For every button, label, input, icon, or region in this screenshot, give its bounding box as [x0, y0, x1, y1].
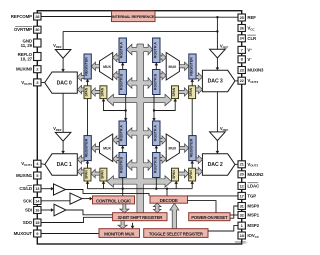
- pin 14 SCK: [34, 198, 41, 205]
- span register SPAN2b: [172, 168, 179, 181]
- arrow decode shift register bidirectional: [153, 203, 161, 213]
- arrow SPAN2a to DAC2: [196, 167, 203, 175]
- svg-text:SPAN: SPAN: [85, 87, 89, 96]
- arrow REG1 to DAC1: [77, 155, 84, 163]
- register RGSTR A2: [153, 121, 160, 146]
- wire load line up to SPAN1a: [87, 183, 89, 189]
- wire VOUT2 pin to DAC2: [235, 163, 238, 165]
- span register SPAN3a: [189, 86, 196, 99]
- svg-text:MSP2: MSP2: [247, 223, 259, 228]
- wire load line up to SPAN2a: [191, 183, 193, 189]
- svg-text:REGISTER: REGISTER: [85, 138, 89, 157]
- register REG3 (DAC3 register): [189, 54, 196, 79]
- pin 5 MUXIN1: [34, 172, 41, 179]
- svg-text:TGP: TGP: [247, 193, 256, 198]
- arrow REG0 to DAC0: [77, 73, 84, 81]
- svg-text:REF: REF: [247, 15, 256, 20]
- pin 13 CS/LD: [34, 185, 41, 192]
- svg-text:RGSTR B: RGSTR B: [120, 73, 124, 90]
- svg-text:SPAN: SPAN: [189, 87, 193, 96]
- arrow RGSTR B1 to mux M1: [113, 155, 119, 163]
- span register SPAN0b: [100, 86, 107, 99]
- wire internal reference to REF pin: [155, 16, 238, 18]
- wire SDI pin to buffer B3: [41, 209, 52, 211]
- wire CS/LD pin to buffer B1: [41, 188, 52, 190]
- svg-text:MUXIN3: MUXIN3: [247, 68, 264, 73]
- wire DAC3 bottom to buffer A2: [216, 92, 218, 132]
- svg-text:SCK: SCK: [23, 199, 33, 204]
- node junction VREF rail right: [216, 30, 218, 32]
- wire VOUT3 pin to DAC3: [235, 80, 238, 82]
- mux M2: [166, 134, 179, 162]
- wire load line up to SPAN1b: [103, 183, 105, 189]
- arrow SPAN1b to SPAN1a: [91, 169, 100, 177]
- wire monitor select to monitor mux: [132, 223, 134, 227]
- arrow SPAN3b to SPAN3a: [179, 88, 189, 96]
- svg-text:MUXIN0: MUXIN0: [16, 67, 33, 72]
- pin 28 REFCOMP: [34, 13, 41, 20]
- svg-text:SPAN: SPAN: [172, 170, 176, 179]
- wire buffer B1 to decode: [66, 190, 150, 196]
- span register SPAN1b: [100, 168, 107, 181]
- wire SPAN0a to REG0: [87, 81, 89, 86]
- svg-text:DECODE: DECODE: [160, 198, 178, 203]
- wire toggle select to MSP2 pin: [208, 226, 238, 231]
- register RGSTR A3: [153, 38, 160, 63]
- vref buffer amp A0: [55, 50, 71, 59]
- svg-text:SPAN: SPAN: [85, 170, 89, 179]
- pin 16 SDI: [34, 207, 41, 214]
- wire RGSTR B0 down to RGSTR A1: [125, 95, 127, 120]
- vref buffer amp A2: [210, 132, 226, 141]
- arrow RGSTR B2 to mux M2: [160, 155, 166, 163]
- pin 23 MUXIN3: [238, 67, 245, 74]
- pin 26 VCC: [238, 25, 245, 32]
- pin 20 MUXIN2: [238, 171, 245, 178]
- span register SPAN3b: [172, 86, 179, 99]
- pin 18 IOVCC: [238, 232, 245, 239]
- wire REFCOMP to internal reference: [41, 16, 112, 18]
- node junction RGSTR B2 load: [155, 188, 157, 190]
- wire VOUT1 pin to DAC1: [41, 163, 45, 166]
- buffer amp B3 SDI: [54, 204, 66, 216]
- svg-text:RGSTR A: RGSTR A: [153, 42, 157, 59]
- svg-text:SPAN: SPAN: [100, 87, 104, 96]
- svg-text:DAC 1: DAC 1: [57, 162, 72, 168]
- svg-text:LDAC: LDAC: [247, 183, 260, 188]
- wire RGSTR B1 down to control logic: [122, 178, 124, 196]
- arrow mux M2 to REG2: [179, 144, 188, 152]
- svg-text:RGSTR A: RGSTR A: [120, 125, 124, 142]
- wire register load line: [88, 188, 193, 190]
- wire buffer A0 to DAC0: [62, 58, 64, 69]
- svg-text:MUXIN2: MUXIN2: [247, 172, 264, 177]
- register RGSTR B3: [153, 70, 160, 95]
- chip package outline: [37, 11, 241, 244]
- wire SPAN2a to REG2: [191, 162, 193, 168]
- wire SPAN3a to REG3: [191, 81, 193, 86]
- arrow RGSTR B0 to mux M0: [113, 71, 119, 79]
- wire VOUT0 pin to DAC0: [41, 81, 45, 83]
- svg-text:MSP0: MSP0: [247, 204, 259, 209]
- DAC 1 block: [45, 154, 77, 175]
- wire load line up to SPAN2b: [175, 183, 177, 189]
- register REG2 (DAC2 register): [189, 136, 196, 161]
- svg-text:DAC 0: DAC 0: [57, 80, 72, 86]
- wire SPAN3a down to REG2: [191, 99, 193, 136]
- svg-text:RGSTR A: RGSTR A: [153, 125, 157, 142]
- arrow REG2 to DAC2: [196, 155, 202, 163]
- svg-text:SPAN: SPAN: [172, 87, 176, 96]
- svg-text:DAC 3: DAC 3: [208, 79, 223, 85]
- pin 15 SDO: [34, 219, 41, 226]
- svg-text:MUXOUT: MUXOUT: [14, 231, 33, 236]
- svg-text:CONTROL LOGIC: CONTROL LOGIC: [96, 198, 132, 203]
- wire buffer A3 to DAC3: [216, 58, 218, 68]
- arrow toggle select to decode: [170, 203, 179, 229]
- power-on reset block: [189, 213, 230, 221]
- wire buffer B3 to shift register: [66, 210, 113, 215]
- svg-text:MUX: MUX: [169, 147, 177, 151]
- wire RGSTR B2 to RGSTR A2: [155, 147, 157, 152]
- wire power-on reset to MSP0 pin: [230, 206, 238, 218]
- wire RGSTR B1 to RGSTR A1: [122, 147, 124, 152]
- span register SPAN1a: [84, 168, 91, 181]
- mux M0: [100, 53, 113, 81]
- pin 4 VOUT1: [34, 160, 41, 167]
- wire buffer A2 to DAC2: [216, 141, 218, 152]
- arrow SPAN3a to DAC3: [196, 85, 203, 93]
- register RGSTR B1: [119, 153, 126, 178]
- arrow mux M0 to REG0: [91, 62, 99, 70]
- svg-text:SPAN: SPAN: [100, 170, 104, 179]
- wire power-on reset to MSP1 pin: [230, 214, 238, 216]
- pin 30 OVRTMP: [34, 26, 41, 33]
- wire buffer B2 to control logic: [82, 198, 91, 200]
- register REG1 (DAC1 register): [84, 136, 91, 161]
- pin 1 MSP2: [238, 222, 245, 229]
- node junction right load line: [153, 109, 155, 111]
- pin 21 VOUT2: [238, 161, 245, 168]
- svg-text:MONITOR MUX: MONITOR MUX: [104, 232, 134, 237]
- register RGSTR B0: [119, 70, 126, 95]
- DAC 0 block: [45, 72, 78, 93]
- svg-text:REGISTER: REGISTER: [189, 57, 193, 76]
- svg-text:CS/LD: CS/LD: [19, 186, 32, 191]
- register RGSTR A1: [119, 121, 126, 146]
- wire SPAN0a down to REG1: [87, 99, 89, 136]
- node junction load line decode: [166, 188, 168, 190]
- wire MUXOUT pin to monitor mux: [41, 233, 99, 235]
- wire SCK pin to buffer B2: [41, 200, 70, 202]
- svg-text:REGISTER: REGISTER: [189, 138, 193, 157]
- wire VREF rail horizontal: [63, 30, 217, 32]
- pin 2 MUXIN0: [34, 66, 41, 73]
- svg-text:11, 29: 11, 29: [21, 43, 33, 48]
- pin 22 VOUT3: [238, 77, 245, 84]
- arrow mux M3 to REG3: [179, 62, 188, 70]
- DAC 3 block: [202, 70, 235, 91]
- monitor mux block: [99, 229, 140, 238]
- svg-text:MUX: MUX: [169, 65, 177, 69]
- arrow RGSTR A1 to mux M1: [113, 136, 119, 144]
- vref buffer amp A1: [55, 132, 71, 141]
- svg-text:RGSTR B: RGSTR B: [153, 156, 157, 173]
- pin 31 MSP0: [238, 203, 245, 210]
- wire buffer A1 to DAC1: [62, 141, 64, 151]
- pin 3 VOUT0: [34, 79, 41, 86]
- svg-text:MUX: MUX: [103, 147, 111, 151]
- arrow control logic to shift register: [120, 204, 129, 213]
- arrow shift register to monitor mux: [118, 221, 127, 229]
- wire load line right: [154, 100, 175, 110]
- wire load line left: [104, 100, 126, 110]
- toggle select register block: [144, 229, 208, 238]
- mux M3: [166, 53, 179, 81]
- wire VREF drop left: [62, 31, 64, 49]
- mux M1: [100, 134, 113, 162]
- pin 24 CLR: [238, 35, 245, 42]
- svg-text:MUX: MUX: [103, 65, 111, 69]
- wire RGSTR B0 to RGSTR A0: [122, 64, 124, 69]
- arrow SPAN2b to SPAN2a: [179, 169, 189, 177]
- svg-text:DAC 2: DAC 2: [208, 162, 223, 168]
- svg-text:MUXIN1: MUXIN1: [16, 173, 33, 178]
- arrow RGSTR B3 to mux M3: [160, 71, 166, 79]
- internal reference block U-REF: [112, 11, 156, 22]
- decode block: [150, 196, 188, 203]
- wire DAC0 bottom to buffer A1: [62, 93, 64, 132]
- pin 25 REF: [238, 14, 245, 21]
- wire load line down to decode: [166, 189, 168, 196]
- svg-text:REFCOMP: REFCOMP: [11, 14, 32, 19]
- svg-text:2664 BD: 2664 BD: [235, 241, 248, 245]
- wire shift register to SDO pin: [41, 217, 113, 222]
- 32-bit shift register block: [113, 213, 167, 221]
- svg-text:OVRTMP: OVRTMP: [14, 27, 32, 32]
- pin 32 MSP1: [238, 212, 245, 219]
- svg-text:MSP1: MSP1: [247, 213, 259, 218]
- data bus trunk vertical: [137, 44, 144, 213]
- pin 8 V-: [238, 56, 245, 63]
- svg-text:TOGGLE SELECT REGISTER: TOGGLE SELECT REGISTER: [149, 232, 204, 237]
- DAC 2 block: [202, 154, 235, 175]
- svg-text:RGSTR B: RGSTR B: [153, 73, 157, 90]
- arrow RGSTR A2 to mux M2: [160, 136, 166, 144]
- buffer amp B1 CS/LD: [54, 184, 66, 195]
- svg-text:SPAN: SPAN: [189, 170, 193, 179]
- arrow SPAN0a to DAC0: [77, 85, 84, 93]
- pin REFLO 10 27: [34, 53, 41, 61]
- register RGSTR B2: [153, 153, 160, 178]
- node junction on REF line: [216, 16, 218, 18]
- svg-text:SDI: SDI: [25, 208, 32, 213]
- register REG0 (DAC0 register): [84, 54, 91, 79]
- svg-text:RGSTR B: RGSTR B: [120, 156, 124, 173]
- vref buffer amp A3: [210, 49, 226, 58]
- span register SPAN0a: [84, 86, 91, 99]
- wire TGP pin to decode: [188, 195, 239, 197]
- arrow REG3 to DAC3: [196, 73, 202, 81]
- wire decode to power-on reset: [188, 201, 217, 213]
- pin 12 LDAC: [238, 182, 245, 189]
- arrow mux M1 to REG1: [91, 144, 99, 152]
- svg-text:32-BIT SHIFT REGISTER: 32-BIT SHIFT REGISTER: [117, 215, 163, 220]
- node junction RGSTR B1 load: [122, 188, 124, 190]
- wire SPAN1a to REG1: [87, 162, 89, 168]
- svg-text:SDO: SDO: [23, 220, 33, 225]
- svg-text:INTERNAL REFERENCE: INTERNAL REFERENCE: [112, 14, 155, 19]
- register RGSTR A0: [119, 38, 126, 63]
- node junction left load line: [125, 109, 127, 111]
- buffer amp B2 SCK: [70, 193, 82, 204]
- arrow RGSTR A3 to mux M3: [160, 53, 166, 61]
- svg-text:10, 27: 10, 27: [20, 57, 32, 62]
- control logic block: [93, 196, 135, 204]
- data bus arms to registers and span: [126, 44, 140, 55]
- wire RGSTR B2 down to load line: [155, 178, 157, 189]
- svg-text:POWER-ON RESET: POWER-ON RESET: [191, 215, 228, 220]
- wire RGSTR B3 down to RGSTR A2: [153, 95, 155, 120]
- pin 9 MUXOUT: [34, 230, 41, 237]
- arrow SPAN1a to DAC1: [77, 167, 84, 175]
- pin GND 11 29: [34, 39, 41, 47]
- wire VREF drop right: [216, 17, 218, 49]
- svg-text:CLR: CLR: [247, 36, 257, 41]
- svg-text:RGSTR A: RGSTR A: [120, 42, 124, 59]
- svg-text:REGISTER: REGISTER: [85, 57, 89, 76]
- pin 7 V+: [238, 46, 245, 53]
- span register SPAN2a: [189, 168, 196, 181]
- arrow RGSTR A0 to mux M0: [113, 53, 119, 61]
- pin 17 TGP: [238, 192, 245, 199]
- wire RGSTR B3 to RGSTR A3: [155, 64, 157, 69]
- arrow SPAN0b to SPAN0a: [91, 88, 100, 96]
